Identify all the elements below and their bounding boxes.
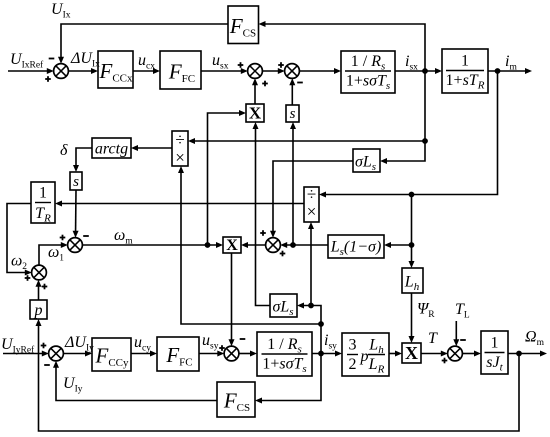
svg-text:1 / Rs: 1 / Rs [267,336,302,356]
svg-text:1 / Rs: 1 / Rs [351,53,386,73]
svg-text:2: 2 [349,356,357,373]
svg-text:1: 1 [39,185,47,202]
svg-text:s: s [73,174,79,190]
svg-text:÷: ÷ [175,130,184,149]
svg-text:1+sσTs: 1+sσTs [262,356,306,376]
svg-text:X: X [226,237,238,254]
svg-text:×: × [307,202,317,221]
svg-text:3: 3 [349,337,357,354]
svg-text:δ: δ [60,142,68,159]
svg-text:1: 1 [491,335,499,352]
svg-text:arctg: arctg [95,141,128,158]
svg-text:1+sσTs: 1+sσTs [346,73,390,93]
svg-text:Ls(1−σ): Ls(1−σ) [330,239,382,259]
svg-text:T: T [428,330,438,347]
svg-text:÷: ÷ [307,185,316,204]
svg-text:X: X [405,343,418,363]
svg-text:s: s [290,106,296,122]
svg-text:1: 1 [461,53,469,70]
svg-text:×: × [175,148,185,167]
svg-text:p: p [360,348,369,365]
svg-text:p: p [34,302,43,319]
svg-text:X: X [249,104,262,123]
